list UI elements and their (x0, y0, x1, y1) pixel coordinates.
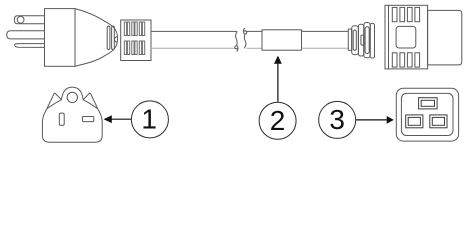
callout 3 arrowhead (387, 116, 394, 124)
connector top rib 4 (415, 7, 420, 21)
strain relief slot r1c1 (124, 22, 126, 36)
connector bottom rib 1 (392, 53, 397, 67)
callout 1 leader line (111, 118, 131, 120)
plug face vertical slot (59, 113, 64, 125)
connector bottom rib 3 (407, 53, 412, 67)
connector top rib 3 (407, 7, 412, 21)
plug P1 cone notch (115, 37, 118, 43)
plug P1 cone (75, 9, 118, 67)
connector top rib 1 (392, 7, 397, 21)
connector boot segment A (352, 26, 359, 55)
cable break right edge (244, 34, 246, 48)
plug face ground hole (67, 92, 77, 102)
callout circle 1 (131, 101, 168, 138)
connector boot segment A slot (353, 30, 356, 50)
plug P1 ground pin (side view) (14, 16, 44, 24)
connector bottom rib 2 (400, 53, 405, 67)
plug P1 middle blade (7, 31, 45, 39)
cable segment 2 top (246, 30, 263, 32)
cable marker label (262, 30, 302, 50)
cable segment 1 bottom (151, 47, 237, 49)
cable break left curl (235, 46, 238, 49)
strain relief slot r1c2 (132, 22, 134, 36)
cable break left edge (236, 31, 238, 45)
plug P1 ground pin circle (17, 16, 24, 23)
callout circle 3 (319, 101, 356, 138)
plug P1 cone rib a (107, 26, 110, 50)
plug P1 strain relief block (121, 20, 151, 61)
connector boot segment B (358, 24, 363, 56)
cable break right curl (244, 31, 247, 34)
plug face outline (42, 87, 102, 142)
callout 2 arrowhead (274, 56, 282, 64)
C19 face inner (401, 93, 453, 135)
cable segment 1 top (151, 30, 237, 32)
svg-text:2: 2 (270, 105, 286, 136)
plug face right wing (83, 93, 98, 109)
connector boot segment C (364, 23, 370, 58)
connector ribbed block inner edge (388, 5, 390, 69)
plug P1 cone rib b (112, 26, 115, 50)
connector top rib 2 (400, 7, 405, 21)
C19 bottom-right slot (430, 115, 447, 128)
connector boot segment C slot (365, 27, 369, 54)
strain relief slot r1c3 (139, 22, 141, 36)
svg-text:3: 3 (329, 104, 345, 135)
cable break left tail (237, 48, 238, 52)
connector ribbed block (385, 5, 428, 69)
connector boot segment B slot (361, 35, 364, 45)
connector boot collar (348, 29, 351, 50)
strain relief slot r2c2 (132, 41, 134, 55)
plug P1 body (45, 9, 76, 67)
C19 face outer (396, 88, 458, 141)
cable segment 3 top (302, 30, 349, 32)
connector boot end plate (370, 23, 374, 58)
C19 bottom-left slot (406, 115, 423, 128)
plug face horizontal slot (82, 117, 93, 122)
callout circle 2 (259, 102, 296, 139)
C19 top slot (419, 98, 438, 109)
strain relief slot r2c3 (139, 41, 141, 55)
cable break right tail (243, 28, 244, 32)
plug face left wing (47, 93, 62, 109)
connector bottom rib 4 (415, 53, 420, 67)
plug P1 bottom blade (15, 44, 45, 48)
cable segment 2 bottom (247, 47, 263, 49)
callout 3 leader line (356, 119, 387, 121)
callout 1 arrowhead (104, 115, 112, 123)
connector body (428, 10, 462, 65)
svg-text:1: 1 (141, 103, 157, 134)
strain relief slot r2c1 (124, 41, 126, 55)
connector latch plate (396, 26, 416, 48)
callout 2 leader line (277, 63, 279, 102)
cable segment 3 bottom (302, 47, 349, 49)
